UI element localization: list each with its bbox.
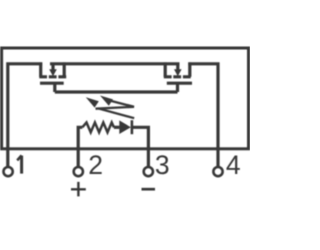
pin 3 terminal circle <box>144 167 153 176</box>
transistor Q2 (right MOSFET) drain contact bar <box>164 62 167 76</box>
wire: gate bus between Q1 and Q2 gates <box>55 90 178 93</box>
light arrow B (lower): head <box>100 96 113 106</box>
transistor Q2 body arrow <box>176 64 179 70</box>
light arrow A (upper): head <box>86 97 99 107</box>
transistor Q2 gate bar <box>167 82 192 85</box>
transistor Q1 source contact bar <box>63 62 66 76</box>
wire: diode to pin3 riser <box>132 127 149 166</box>
wire: top source bus between Q1 and Q2 <box>50 62 180 65</box>
svg-text:4: 4 <box>226 150 241 180</box>
pin 4 terminal circle <box>213 167 222 176</box>
transistor Q2 channel segments <box>164 75 191 78</box>
pin 1 terminal circle <box>4 167 13 176</box>
wire: Q2 gate stub <box>176 83 179 92</box>
wire: resistor to diode <box>114 126 120 129</box>
diode D1 (LED) anode triangle <box>119 120 131 134</box>
transistor Q2 source contact bar <box>188 62 191 76</box>
transistor Q1 (left MOSFET) drain contact bar <box>39 62 42 76</box>
wire: pin2 riser to input network <box>78 127 82 166</box>
resistor R1 zigzag <box>82 123 114 133</box>
light arrows zigzag tail: V wedge <box>96 101 135 109</box>
svg-text:2: 2 <box>88 150 103 180</box>
wire: pin1 riser and top wire to Q1 drain <box>8 64 42 167</box>
wire: Q1 gate stub <box>53 83 56 92</box>
transistor Q1 gate bar <box>40 82 64 85</box>
diode D1 cathode bar <box>131 120 134 134</box>
light arrows zigzag tail: lower stroke <box>98 108 134 118</box>
svg-text:3: 3 <box>155 150 170 180</box>
transistor Q1 body arrow <box>51 64 54 70</box>
pin 2 terminal circle <box>74 167 83 176</box>
pin number 1 <box>20 156 23 174</box>
transistor Q1 channel segments <box>39 75 66 78</box>
minus sign under pin 3 <box>142 188 156 191</box>
wire: Q2 drain to pin4 riser <box>188 64 218 167</box>
plus sign under pin 2 <box>71 182 86 197</box>
package outline box <box>2 48 249 149</box>
